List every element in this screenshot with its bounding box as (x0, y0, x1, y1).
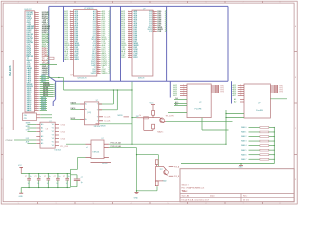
U1 right pin row (93, 34, 111, 37)
U5 left pin row 4 (36, 135, 43, 138)
connector pin row (27, 63, 49, 66)
U1 left pin row (64, 14, 79, 17)
frame tick left (1, 51, 3, 53)
connector pin row (27, 67, 49, 70)
svg-text:25: 25 (70, 58, 72, 60)
svg-text:9: 9 (153, 10, 154, 12)
capacitor C3 (44, 173, 51, 188)
svg-text:U?: U? (258, 103, 260, 105)
svg-text:5: 5 (70, 18, 71, 20)
svg-text:R?3: R?3 (280, 92, 283, 94)
U1 left pin row (64, 30, 79, 33)
svg-text:23: 23 (70, 54, 72, 56)
svg-text:9: 9 (129, 26, 130, 28)
svg-text:15: 15 (70, 38, 72, 40)
U3 left lower pin (174, 101, 187, 104)
U1 left pin row (64, 48, 78, 51)
svg-text:RAMS: RAMS (71, 101, 77, 104)
svg-text:2: 2 (240, 86, 241, 88)
long wire y90 (64, 89, 133, 91)
svg-text:30: 30 (97, 66, 99, 68)
U6 right pin 4 (99, 121, 111, 123)
svg-text:27: 27 (97, 60, 99, 62)
connector pin row (27, 21, 49, 24)
svg-text:25: 25 (35, 59, 37, 61)
svg-text:U?: U? (71, 75, 73, 77)
svg-text:7: 7 (129, 22, 130, 24)
svg-text:7: 7 (70, 22, 71, 24)
svg-text:13: 13 (97, 32, 99, 34)
svg-text:B: B (295, 77, 296, 79)
connector pin row (27, 95, 56, 98)
svg-text:12: 12 (70, 32, 72, 34)
U1 right pin row (91, 64, 110, 67)
svg-text:32: 32 (35, 73, 37, 75)
page border inner (3, 3, 294, 202)
U1 left pin row (64, 24, 79, 27)
junction (225, 144, 226, 145)
svg-text:Size: A4: Size: A4 (182, 194, 190, 197)
U2 left pin row (121, 36, 138, 39)
svg-text:19: 19 (97, 44, 99, 46)
U2 right pin row (149, 12, 167, 15)
U1 right pin row (92, 58, 111, 61)
svg-text:5: 5 (97, 16, 98, 18)
bus horizontal middle (56, 80, 228, 82)
svg-text:x1: x1 (86, 147, 88, 149)
U2 left pin row (121, 38, 138, 41)
U2 left pin row (121, 34, 138, 37)
svg-text:CTL_CLK: CTL_CLK (60, 146, 69, 148)
U1 right pin row (92, 50, 110, 53)
U2 left pin row (121, 44, 139, 47)
svg-text:1: 1 (129, 10, 130, 12)
svg-text:29: 29 (97, 64, 99, 66)
U1 left pin row (64, 20, 79, 23)
svg-text:15: 15 (97, 36, 99, 38)
U1 right pin row (93, 32, 111, 35)
svg-text:PixelFB: PixelFB (195, 109, 203, 111)
U3 right pin + resistor (211, 91, 224, 93)
svg-text:15: 15 (35, 39, 37, 41)
svg-text:6: 6 (240, 94, 241, 96)
U1 right pin row (92, 54, 111, 57)
U1 right pin row (92, 68, 110, 71)
svg-text:CTL4: CTL4 (61, 138, 65, 140)
U5 right pin row 1 (52, 124, 65, 126)
svg-text:16: 16 (153, 24, 155, 26)
connector pin row (27, 51, 49, 54)
svg-text:3: 3 (129, 14, 130, 16)
U3 left lower pin (174, 103, 187, 106)
IC U7 body (91, 140, 104, 159)
svg-text:MRD: MRD (26, 126, 31, 128)
connector pin row (27, 83, 56, 86)
U1 left pin row (64, 40, 79, 43)
wire RN1 (40, 64, 58, 66)
U5 right pin row 7 (52, 145, 59, 147)
bus vertical 3 (109, 6, 111, 81)
frame tick top (187, 1, 189, 3)
svg-text:4: 4 (97, 14, 98, 16)
svg-text:4: 4 (129, 16, 130, 18)
U2 left pin row (121, 10, 138, 13)
svg-text:1u: 1u (39, 176, 41, 178)
svg-text:20: 20 (35, 49, 37, 51)
svg-text:Title:: Title: (182, 190, 188, 193)
svg-text:RAB 6: RAB 6 (241, 153, 246, 156)
svg-text:5: 5 (240, 92, 241, 94)
U5 right pin row 6 (52, 142, 59, 144)
connector pin row (27, 47, 49, 50)
U7 right pin 3 (104, 157, 109, 159)
svg-text:IOR: IOR (158, 31, 162, 33)
ladder resistor row (241, 126, 275, 129)
page border outer (1, 1, 297, 204)
R2 lead (152, 129, 154, 131)
svg-text:U?: U? (143, 8, 145, 10)
U2 right pin row (149, 24, 167, 27)
svg-text:T4A2: T4A2 (163, 180, 167, 183)
frame tick bottom (74, 202, 76, 204)
svg-text:16: 16 (35, 41, 37, 43)
U4 left pin row (233, 84, 245, 87)
svg-text:11: 11 (97, 28, 99, 30)
R1 lead (152, 115, 154, 117)
U1 left pin row (64, 44, 80, 47)
junction (136, 154, 137, 155)
connector pin row (27, 35, 49, 38)
U1 right pin row (93, 22, 111, 25)
junction (225, 117, 226, 118)
svg-text:20: 20 (129, 48, 131, 50)
bus vertical 7 (169, 81, 171, 97)
svg-text:45: 45 (35, 99, 37, 101)
svg-text:C?: C? (35, 176, 37, 178)
junction x117 (117, 89, 118, 90)
svg-text:ISA BUS: ISA BUS (8, 65, 12, 76)
svg-text:U?: U? (49, 121, 51, 123)
U6 right pin 2 wire up (99, 109, 118, 111)
U1 right pin row (94, 66, 111, 69)
svg-text:[LS]: [LS] (88, 112, 92, 114)
svg-text:5: 5 (183, 92, 184, 94)
svg-text:2: 2 (129, 12, 130, 14)
svg-text:9: 9 (97, 24, 98, 26)
svg-text:6: 6 (183, 94, 184, 96)
U1 left pin row (64, 12, 79, 15)
svg-text:SA03: SA03 (27, 109, 32, 112)
svg-text:10: 10 (129, 28, 131, 30)
U2 left pin row (121, 12, 138, 15)
svg-text:23: 23 (35, 55, 37, 57)
U2 left pin row (121, 54, 138, 57)
transistor Q1 (160, 118, 165, 123)
U7 left pin 1 (66, 143, 91, 145)
svg-text:27: 27 (35, 63, 37, 65)
U1 left pin row (64, 56, 79, 59)
U7 left pin 2 (78, 157, 92, 159)
connector pin row (27, 61, 49, 64)
U1 right pin row (93, 10, 110, 13)
U1 right pin row (91, 62, 110, 65)
U5 left pin row 3 (26, 130, 43, 134)
bus vertical 8 (231, 81, 233, 103)
U1 left pin row (64, 38, 79, 41)
svg-text:T4A2Tx: T4A2Tx (157, 131, 163, 134)
svg-text:1u: 1u (28, 183, 30, 185)
Q2 bottom wire (156, 180, 164, 182)
ladder resistor row (241, 135, 275, 138)
IC U3 body (187, 84, 211, 118)
svg-text:1u: 1u (37, 183, 39, 185)
svg-text:74LS14: 74LS14 (94, 126, 101, 128)
Q2 left leg (155, 166, 157, 181)
svg-text:26: 26 (97, 58, 99, 60)
U2 right pin row (149, 30, 167, 33)
svg-text:C?: C? (25, 176, 27, 178)
wire into Q1 (132, 117, 137, 119)
svg-text:12: 12 (153, 16, 155, 18)
svg-text:31: 31 (35, 71, 37, 73)
U4 left pin row (233, 86, 245, 89)
wire into Q2 stage (137, 154, 159, 156)
U1 left pin row (64, 28, 79, 31)
svg-text:12: 12 (35, 33, 37, 35)
svg-text:GND: GND (239, 167, 244, 169)
connector pin row (27, 53, 49, 56)
long wire y163 ground rail (181, 163, 274, 165)
U3 right pin + resistor (211, 85, 224, 87)
wire y147 PIXDLN (109, 147, 137, 149)
wire drop x117 to U6 (116, 90, 118, 110)
svg-text:17: 17 (97, 40, 99, 42)
connector pin row (27, 45, 49, 48)
connector pin row (27, 65, 49, 68)
svg-text:26: 26 (35, 61, 37, 63)
svg-text:A1: A1 (41, 127, 43, 130)
svg-text:19: 19 (129, 46, 131, 48)
connector pin row (27, 80, 49, 84)
U4 left pin row (233, 88, 245, 91)
connector pin row (27, 43, 49, 46)
svg-text:18: 18 (70, 44, 72, 46)
ground symbol GND1 (239, 164, 244, 169)
svg-text:4: 4 (70, 16, 71, 18)
U1 right pin row (93, 40, 110, 43)
svg-text:29: 29 (35, 67, 37, 69)
U1 right pin row (91, 72, 111, 75)
U3 left pin row (170, 86, 187, 89)
U5 left pin row 2 (26, 126, 43, 130)
Q2 emitter down wire (156, 186, 158, 191)
svg-text:2p: 2p (81, 182, 83, 184)
svg-text:6: 6 (97, 18, 98, 20)
U1 left pin row (64, 42, 79, 45)
svg-text:GND: GND (134, 198, 139, 200)
connector pin row (27, 104, 47, 108)
svg-text:A2: A2 (41, 130, 43, 133)
svg-text:7: 7 (97, 20, 98, 22)
svg-text:Rev:: Rev: (243, 195, 248, 197)
connector pin row (27, 78, 49, 82)
svg-text:24: 24 (35, 57, 37, 59)
svg-text:628128-70: 628128-70 (78, 78, 87, 80)
U2 left pin row (121, 18, 138, 21)
long wire y144 PIXCLK (109, 143, 226, 145)
svg-text:17: 17 (153, 26, 155, 28)
svg-text:44: 44 (35, 97, 37, 99)
U1 right pin row (92, 36, 110, 39)
U6 right pin 3 (99, 117, 111, 119)
resistor R3 vertical (155, 160, 158, 165)
frame tick bottom (112, 202, 114, 204)
svg-text:74HC04: 74HC04 (92, 152, 99, 154)
frame tick left (1, 154, 3, 156)
svg-text:Id: 1/1: Id: 1/1 (243, 199, 250, 201)
svg-text:RAB 2: RAB 2 (241, 135, 246, 138)
U1 left pin row (64, 18, 79, 21)
svg-text:3: 3 (183, 88, 184, 90)
U2 left pin row (121, 16, 138, 19)
U1 right pin row (93, 24, 111, 27)
connector pin row (27, 29, 49, 32)
ground symbol cap bank (19, 188, 24, 198)
connector pin row (27, 33, 50, 36)
capacitor C10 (71, 158, 84, 187)
svg-text:TR?: TR? (160, 169, 163, 171)
U5 left pin row 1 (26, 123, 43, 127)
connector pin row (27, 89, 56, 92)
svg-text:25: 25 (97, 56, 99, 58)
svg-text:24: 24 (97, 54, 99, 56)
frame tick right (294, 51, 297, 53)
frame tick bottom (187, 202, 189, 204)
frame tick right (294, 154, 297, 156)
svg-text:RAB 0: RAB 0 (241, 126, 246, 129)
capacitor C1 (25, 173, 32, 188)
wire horizontal y130 (202, 129, 229, 131)
U1 right pin row (93, 28, 111, 31)
svg-text:B: B (1, 77, 2, 79)
svg-text:13: 13 (153, 18, 155, 20)
U2 left pin row (121, 42, 138, 45)
junction (131, 144, 132, 145)
U7 right pin 2 (104, 147, 109, 149)
svg-text:PIXCLK_AB: PIXCLK_AB (111, 142, 122, 145)
svg-text:A0: A0 (41, 123, 43, 126)
svg-text:1u: 1u (47, 183, 49, 185)
svg-text:PxCLK: PxCLK (102, 163, 108, 165)
connector pin row (27, 31, 49, 34)
svg-text:RN?: RN? (46, 63, 49, 65)
U3 bottom wire (168, 112, 187, 114)
svg-text:22: 22 (97, 50, 99, 52)
svg-text:22: 22 (129, 52, 131, 54)
U1 left pin row (64, 32, 79, 35)
svg-text:TR_CLPS: TR_CLPS (166, 115, 175, 117)
U4 left pin row (233, 94, 245, 97)
connector pin row (27, 55, 50, 58)
transistor Q2 (164, 166, 169, 175)
svg-text:49: 49 (35, 107, 37, 109)
U3 right pin + resistor (211, 87, 224, 89)
resistor R base Q1 (144, 117, 149, 119)
bus vertical 1b (55, 81, 57, 99)
connector pin row (27, 13, 50, 16)
svg-text:RAB 7: RAB 7 (241, 158, 246, 161)
frame tick bottom (224, 202, 226, 204)
svg-text:C?: C? (44, 176, 46, 178)
U1 left pin row (64, 16, 79, 19)
svg-text:CTLCLK: CTLCLK (6, 140, 14, 142)
svg-text:SA03: SA03 (41, 108, 47, 111)
svg-text:10: 10 (97, 26, 99, 28)
title block outline (180, 169, 294, 202)
Q2 out stub bottom (169, 175, 174, 177)
svg-text:42: 42 (35, 93, 37, 95)
svg-text:KiCad E.D.A. eeschema 4.0.7: KiCad E.D.A. eeschema 4.0.7 (182, 198, 210, 201)
svg-text:20: 20 (97, 46, 99, 48)
svg-text:18: 18 (129, 44, 131, 46)
U5 left pin row 6 (26, 141, 43, 146)
svg-text:39: 39 (35, 87, 37, 89)
power flag VCC Q1 (150, 103, 156, 111)
U2 left pin row (121, 56, 138, 59)
junction x113 (113, 89, 114, 90)
U2 right pin row (148, 28, 167, 31)
connector J1 body (25, 11, 35, 112)
svg-text:Y5: Y5 (52, 142, 54, 144)
svg-text:1: 1 (240, 84, 241, 86)
U1 right pin row (93, 12, 110, 15)
U7 right pin 1 (104, 143, 109, 145)
U1 left pin row (64, 36, 79, 39)
R3 lead (156, 165, 158, 167)
U1 right pin row (92, 48, 110, 51)
U5 right pin row 5 (52, 138, 65, 140)
frame tick top (262, 1, 264, 3)
svg-text:43: 43 (35, 95, 37, 97)
svg-text:1u: 1u (56, 183, 58, 185)
U1 right pin row (92, 70, 110, 73)
bus jog (49, 77, 56, 82)
U1 right pin row (93, 14, 110, 17)
U4 right pin + resistor (270, 87, 282, 89)
svg-text:C?: C? (81, 177, 83, 179)
svg-text:A4: A4 (41, 139, 43, 142)
ladder resistor row (241, 158, 275, 161)
Q1 base wire red (137, 117, 144, 119)
svg-text:19: 19 (35, 47, 37, 49)
U3 right pin + resistor (211, 89, 224, 91)
svg-text:35: 35 (35, 79, 37, 81)
U3 left pin row (170, 84, 187, 87)
capacitor C5 (63, 173, 70, 188)
svg-text:11: 11 (129, 30, 131, 32)
svg-text:1: 1 (70, 10, 71, 12)
svg-text:Y0: Y0 (52, 124, 54, 126)
connector pin row (27, 41, 50, 44)
svg-text:48: 48 (35, 105, 37, 107)
U2 left pin row (121, 48, 137, 51)
U1 left pin row (64, 54, 79, 57)
svg-text:24: 24 (70, 56, 72, 58)
frame tick bottom (149, 202, 151, 204)
svg-text:34: 34 (35, 77, 37, 79)
junction x132 y117 (131, 117, 132, 118)
connector pin row (27, 39, 49, 42)
